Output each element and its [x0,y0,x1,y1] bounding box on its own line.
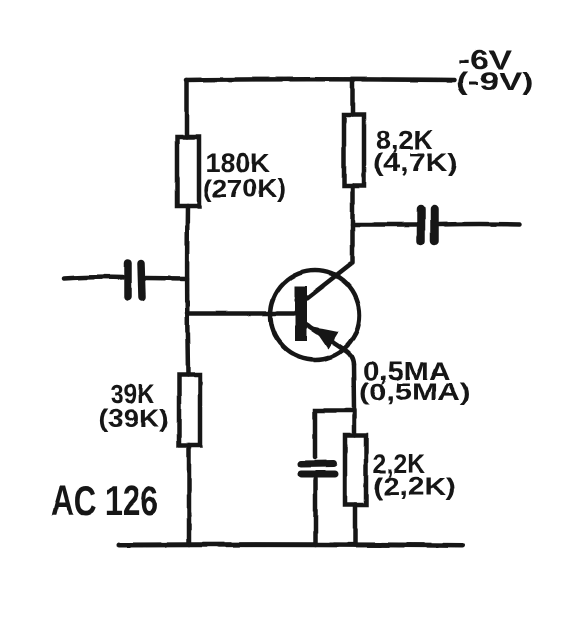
wire: left branch from rail to R1 top [184,80,189,137]
svg-text:180K: 180K [205,148,271,178]
wire: C3 bottom to ground rail [313,478,318,545]
wire: top supply rail [186,77,454,82]
svg-text:(0,5MA): (0,5MA) [359,379,470,406]
capacitor C2 output, left plate [417,209,426,241]
wire: junction to R4 top [352,410,357,435]
svg-text:AC 126: AC 126 [51,477,158,524]
svg-text:(270K): (270K) [203,175,286,203]
svg-text:(-9V): (-9V) [456,68,534,96]
wire: emitter vertical down to junction [351,364,356,410]
svg-text:(2,2K): (2,2K) [373,473,456,501]
svg-text:(39K): (39K) [99,405,169,433]
transistor Q1 emitter lead with curve to vertical [306,324,354,364]
capacitor C1 input, right plate [141,264,142,298]
transistor Q1 emitter arrow head [313,327,339,349]
transistor Q1 body circle [271,271,360,360]
wire: C2 to output terminal [439,222,520,227]
wire: input line from left edge to C1 [64,277,123,278]
transistor Q1 base bar [295,286,307,341]
resistor R4 2.2K body [345,435,366,505]
transistor Q1 collector lead (diagonal inside circle) [306,263,352,299]
capacitor C1 input, left plate [124,263,132,297]
capacitor C3 bypass, top plate [301,460,334,468]
wire: R4 bottom to ground rail [353,505,358,545]
capacitor C3 bypass, bottom plate [301,471,335,478]
wire: R1 bottom to base node and down to R2 top [185,206,190,375]
resistor R2 39K body [179,375,200,445]
wire: R3 bottom through output node to collector [350,186,355,263]
wire: rail down to R3 top [350,80,355,115]
wire: C1 to left vertical branch [146,276,187,281]
capacitor C2 output, right plate [430,209,439,241]
wire: R2 bottom to ground rail [187,445,192,545]
resistor R1 180K body [177,137,199,206]
svg-text:(4,7K): (4,7K) [373,149,458,177]
wire: base wire from divider node to Q1 base [187,311,296,316]
wire: bottom ground rail [119,542,463,548]
resistor R3 8.2K body [344,115,364,186]
wire: output node to C2 [353,222,417,227]
wire: junction branch left to bypass capacitor [315,411,354,458]
